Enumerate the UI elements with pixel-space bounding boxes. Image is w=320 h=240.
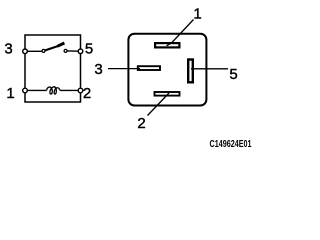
svg-text:2: 2 [137,115,145,132]
svg-text:3: 3 [94,61,102,78]
svg-text:1: 1 [6,85,14,102]
svg-text:3: 3 [4,40,12,57]
svg-text:1: 1 [193,6,201,23]
svg-text:5: 5 [229,66,237,83]
svg-text:5: 5 [85,40,93,57]
svg-text:2: 2 [83,85,91,102]
svg-text:C149624E01: C149624E01 [210,139,252,150]
